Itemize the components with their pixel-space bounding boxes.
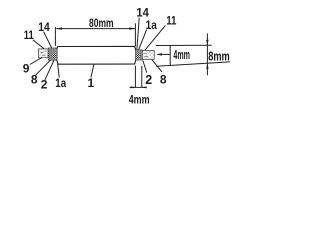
rod right shoulder taper (135, 46, 136, 64)
leader 14 left (44, 32, 52, 48)
rod body 1 : top edge (58, 45, 135, 47)
svg-text:1: 1 (88, 76, 95, 90)
rod body 1 : bottom edge (58, 63, 135, 65)
left ring 14 (dense hatched block) (48, 48, 57, 60)
svg-text:2: 2 (41, 78, 48, 92)
leader 2 left (45, 60, 54, 80)
leader 8 right (152, 60, 162, 72)
svg-text:2: 2 (145, 73, 152, 87)
left end cap 11 (outlined block) (38, 49, 48, 58)
dimension 8mm extension lines (156, 33, 230, 75)
svg-text:8: 8 (160, 72, 167, 86)
connector line right of 4mm arrow (169, 45, 171, 66)
leader 14 right (137, 18, 139, 50)
svg-text:11: 11 (166, 13, 176, 27)
svg-text:1a: 1a (146, 18, 157, 32)
leader 1a left (57, 62, 59, 78)
leader 2 right (143, 60, 147, 72)
svg-text:11: 11 (24, 28, 34, 42)
dimension 4mm right (arrow to end portion) (158, 53, 170, 55)
svg-text:80mm: 80mm (89, 18, 114, 30)
leader 1a right (139, 30, 147, 50)
rod left shoulder taper (57, 47, 58, 65)
leader 9 (30, 57, 42, 64)
leader 8 left (35, 60, 51, 76)
svg-text:1a: 1a (55, 76, 66, 90)
svg-text:8: 8 (31, 73, 38, 87)
leader 11 left (33, 40, 44, 49)
leader 1 (91, 64, 94, 77)
svg-text:9: 9 (23, 62, 30, 76)
leader 11 right (145, 25, 166, 50)
svg-text:4mm: 4mm (129, 93, 150, 107)
dimension 80mm (55, 23, 135, 46)
dimension 4mm bottom (130, 66, 147, 88)
right ring 14 (dense hatched block) (135, 50, 142, 60)
svg-text:8mm: 8mm (208, 48, 230, 63)
svg-text:4mm: 4mm (173, 48, 190, 62)
right end portion 1a (outlined block) (142, 50, 154, 59)
